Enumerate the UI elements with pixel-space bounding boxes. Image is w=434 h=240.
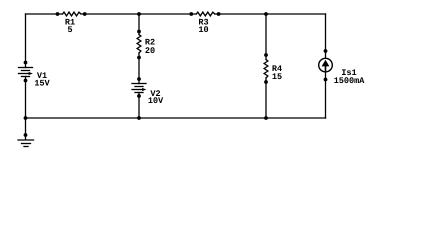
label V2 bbox=[150, 90, 160, 96]
wire R4 branch lower bbox=[265, 78, 267, 118]
wire middle branch between R2 and V2 bbox=[138, 53, 140, 84]
junction dot V1 positive pin bbox=[24, 61, 28, 65]
junction dot R2 top pin bbox=[137, 30, 141, 34]
junction dot V2 bottom pin bbox=[137, 94, 141, 98]
resistor R3 body bbox=[196, 12, 215, 16]
wire top segment between R1 and R3 bbox=[81, 13, 196, 15]
label 15 bbox=[272, 73, 281, 79]
wire top node A left segment bbox=[26, 13, 63, 15]
label 20 bbox=[145, 47, 154, 53]
battery V2 polarity arrowhead bbox=[142, 88, 146, 91]
label 15V bbox=[35, 80, 50, 86]
junction dot Is1 top pin bbox=[324, 49, 328, 53]
current source Is1 arrow shaft bbox=[325, 66, 327, 70]
current source Is1 circle bbox=[319, 58, 333, 72]
wire middle branch upper (top wire to R2) bbox=[138, 14, 140, 35]
wire left branch upper (V1 to top wire) bbox=[25, 14, 27, 68]
wire R4 branch upper bbox=[265, 14, 267, 60]
junction dot Is1 bottom pin bbox=[324, 78, 328, 82]
label 1500mA bbox=[334, 77, 364, 83]
junction dot top node at middle branch bbox=[137, 12, 141, 16]
label R2 bbox=[145, 39, 154, 45]
resistor R4 body bbox=[264, 60, 268, 79]
battery V1 polarity arrowhead bbox=[29, 72, 33, 75]
junction dot R1 left pin bbox=[56, 12, 60, 16]
label V1 bbox=[37, 72, 47, 78]
label Is1 bbox=[342, 69, 356, 75]
resistor R1 body bbox=[63, 12, 82, 16]
junction dot ground pin bbox=[24, 133, 28, 137]
label R3 bbox=[199, 19, 208, 25]
junction dot bottom node at left branch bbox=[24, 116, 28, 120]
wire top right segment after R3 bbox=[215, 13, 326, 15]
resistor R2 body bbox=[137, 35, 141, 54]
wire middle branch lower (V2 to bottom wire) bbox=[138, 93, 140, 119]
wire Is1 branch lower bbox=[325, 72, 327, 118]
junction dot R2 bottom pin bbox=[137, 56, 141, 60]
ground symbol bars bbox=[18, 140, 34, 147]
junction dot R4 bottom pin bbox=[264, 80, 268, 84]
junction dot R3 right pin bbox=[217, 12, 221, 16]
junction dot bottom node at middle branch bbox=[137, 116, 141, 120]
junction dot R3 left pin bbox=[189, 12, 193, 16]
wire bottom node (ground net) bbox=[26, 117, 326, 119]
battery V1 plates bbox=[19, 68, 33, 77]
junction dot R1 right pin bbox=[83, 12, 87, 16]
junction dot top node at R4 branch bbox=[264, 12, 268, 16]
wire Is1 branch upper bbox=[325, 14, 327, 58]
label 5 bbox=[68, 26, 72, 32]
junction dot bottom node at R4 branch bbox=[264, 116, 268, 120]
current source Is1 arrowhead bbox=[322, 60, 330, 67]
label R1 bbox=[65, 19, 74, 25]
wire left branch lower (V1 to bottom wire) bbox=[25, 77, 27, 119]
junction dot V1 negative pin bbox=[24, 79, 28, 83]
label R4 bbox=[272, 65, 281, 71]
junction dot V2 top pin bbox=[137, 77, 141, 81]
battery V2 plates bbox=[132, 84, 146, 93]
label 10V bbox=[148, 97, 163, 103]
junction dot R4 top pin bbox=[264, 53, 268, 57]
wire ground stem bbox=[25, 118, 27, 140]
label 10 bbox=[199, 26, 208, 32]
